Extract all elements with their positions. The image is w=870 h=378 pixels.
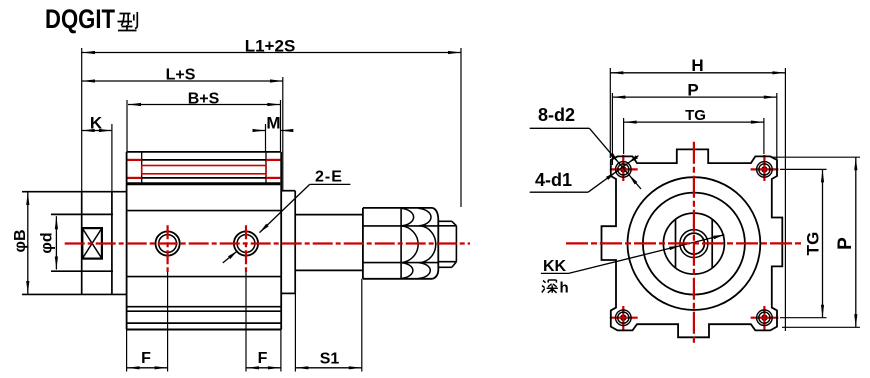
corner hole bottom-right (757, 310, 773, 326)
extension lines end view top (610, 68, 785, 331)
corner cross bottom-left (610, 306, 638, 331)
center cross red horizontal (566, 242, 802, 244)
dimension phiB (12, 192, 29, 294)
rod boss flat left (675, 219, 677, 269)
bore circle inner (643, 193, 745, 295)
extension lines left view (82, 48, 461, 372)
piston rod right (295, 215, 363, 271)
dimension M (253, 114, 294, 133)
svg-text:h: h (560, 280, 569, 297)
thread circle KK inner (683, 233, 704, 254)
piston rod left (51, 214, 113, 271)
leader 2-E (223, 169, 351, 263)
svg-text:KK: KK (543, 258, 567, 275)
dimension phid (39, 216, 58, 269)
threaded tip (438, 221, 456, 267)
dimension TG top (624, 107, 764, 124)
main centerline left view (65, 242, 470, 244)
top cover red seal segments (127, 160, 280, 178)
svg-text:L1+2S: L1+2S (245, 37, 296, 56)
cylinder top cover (127, 152, 280, 184)
port circle 2 (234, 231, 258, 255)
svg-text:φd: φd (39, 232, 56, 253)
dimension S1 (295, 351, 361, 370)
corner cross top-right (751, 155, 779, 181)
port circle 1 (156, 231, 180, 255)
svg-text:F: F (141, 350, 151, 367)
svg-text:F: F (258, 350, 268, 367)
dimension B+S (128, 91, 280, 108)
svg-text:8-d2: 8-d2 (538, 105, 575, 125)
svg-text:H: H (691, 56, 703, 75)
center cross red vertical (693, 142, 695, 343)
corner hole bottom-left (616, 310, 632, 326)
rod boss circle (663, 213, 724, 274)
dimension F right (246, 350, 281, 369)
dimension L+S (82, 67, 283, 84)
left rod boss block (22, 192, 127, 295)
svg-text:K: K (90, 114, 103, 133)
svg-text:P: P (835, 237, 856, 250)
leader KK (541, 235, 724, 275)
corner hole top-left (616, 162, 632, 178)
hex nut (363, 208, 438, 279)
right step plate (281, 191, 295, 294)
svg-text:M: M (266, 114, 280, 133)
dimension F left (127, 350, 168, 369)
svg-text:P: P (687, 81, 698, 100)
dimension TG right (803, 169, 824, 317)
end view body outline (602, 149, 783, 337)
corner cross top-left (610, 155, 638, 181)
port 1 centerline (167, 225, 169, 272)
cylinder body outline (127, 152, 282, 330)
port 2 centerline (245, 225, 247, 272)
dimension K (82, 114, 112, 133)
leader 8-d2 (530, 105, 641, 189)
corner hole top-right (757, 162, 773, 178)
svg-text:TG: TG (803, 232, 822, 256)
svg-text:φB: φB (12, 230, 29, 253)
svg-text:B+S: B+S (188, 91, 220, 108)
title char 型 (118, 12, 138, 31)
dimension P right (835, 157, 857, 327)
svg-text:S1: S1 (320, 351, 340, 368)
svg-text:TG: TG (685, 107, 706, 124)
top cover red seal rectangle (142, 166, 266, 174)
extension lines end view right (772, 157, 860, 327)
svg-text:2-E: 2-E (315, 169, 343, 186)
svg-text:DQGIT: DQGIT (45, 4, 115, 34)
thread circle KK outer (680, 230, 708, 258)
rod boss flat right (711, 219, 713, 269)
svg-text:4-d1: 4-d1 (535, 170, 572, 190)
dimension L1+2S (82, 37, 461, 56)
corner cross bottom-right (751, 306, 779, 331)
label 深h (542, 280, 569, 297)
dimension P top (612, 81, 776, 100)
leader 4-d1 (530, 155, 639, 192)
title DQGIT (45, 4, 115, 34)
dimension H (610, 56, 785, 75)
thread symbol box with X (82, 228, 102, 259)
bore circle outer (628, 177, 761, 310)
svg-text:L+S: L+S (166, 67, 196, 84)
